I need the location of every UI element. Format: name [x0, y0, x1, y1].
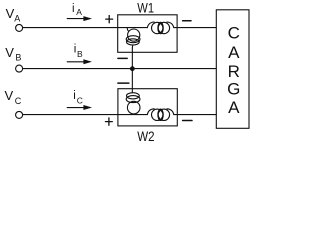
voltage coil W1 — [126, 28, 140, 48]
wire phase A right — [174, 27, 217, 29]
label VC — [5, 88, 22, 106]
wattmeter W1 box — [118, 15, 177, 53]
wire phase B — [23, 68, 217, 70]
svg-text:A: A — [76, 7, 82, 17]
wire phase C left — [23, 114, 148, 116]
terminal VC — [16, 111, 23, 118]
svg-text:i: i — [74, 43, 77, 55]
minus W1 bottom — [118, 57, 127, 59]
load box CARGA — [216, 10, 249, 129]
wattmeter W2 box — [118, 89, 177, 126]
svg-text:W1: W1 — [137, 0, 154, 15]
label W1 — [137, 0, 154, 15]
svg-text:G: G — [227, 79, 240, 98]
arrow iC — [67, 105, 92, 110]
label iB — [74, 43, 83, 59]
arrow iB — [67, 59, 92, 64]
wire node to W2 — [131, 69, 133, 93]
svg-text:V: V — [5, 88, 14, 103]
label CARGA — [227, 23, 240, 117]
svg-text:C: C — [77, 96, 83, 106]
arrow iA — [67, 16, 92, 21]
svg-text:V: V — [5, 45, 14, 60]
current coil W2 — [147, 109, 174, 121]
voltage coil W2 — [126, 93, 140, 114]
terminal VB — [16, 65, 23, 72]
current coil W1 — [147, 22, 174, 34]
svg-text:B: B — [77, 49, 83, 59]
node B junction — [130, 66, 135, 71]
wire phase C right — [174, 114, 217, 116]
svg-text:A: A — [228, 43, 240, 62]
label W2 — [137, 129, 154, 144]
svg-text:C: C — [228, 23, 240, 42]
plus W2 — [106, 118, 113, 125]
label VA — [6, 6, 21, 23]
svg-text:B: B — [15, 53, 21, 63]
svg-text:C: C — [15, 96, 22, 106]
minus W1 right — [183, 20, 191, 22]
label iC — [73, 90, 83, 106]
wire phase A left — [23, 27, 148, 29]
label VB — [5, 45, 21, 62]
svg-text:A: A — [14, 14, 20, 24]
minus W2 right — [183, 120, 192, 122]
terminal VA — [16, 24, 23, 31]
label iA — [72, 3, 82, 17]
wire W1 to node — [131, 48, 133, 69]
plus W1 — [106, 16, 113, 23]
svg-text:R: R — [228, 62, 240, 81]
minus W2 top — [118, 82, 129, 84]
svg-text:A: A — [228, 98, 240, 117]
svg-text:i: i — [73, 90, 76, 102]
svg-text:i: i — [72, 3, 75, 15]
svg-text:W2: W2 — [137, 129, 154, 143]
